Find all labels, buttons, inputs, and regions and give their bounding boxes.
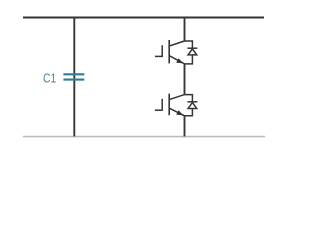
diode D2 triangle [188, 102, 197, 108]
transistor Q2 (lower IGBT with antiparallel diode) [155, 94, 198, 116]
diode D1 cathode bar [187, 47, 197, 49]
wire: IGBT branch mid segment (Q1 emitter to Q2 collector) [184, 64, 186, 96]
wire: IGBT branch upper segment (rail to Q1 collector) [184, 18, 186, 42]
collector diagonal [169, 95, 184, 100]
collector diagonal [169, 41, 184, 46]
wire: capacitor branch vertical [73, 18, 75, 137]
diode top stub [185, 41, 193, 48]
body bar [168, 40, 170, 63]
diode D2 cathode bar [187, 101, 197, 103]
capacitor C1 plates [63, 74, 84, 79]
transistor Q1 (upper IGBT with antiparallel diode) [155, 40, 198, 64]
wire: bottom rail (light gray) [23, 136, 265, 138]
wire: top DC+ rail [23, 16, 264, 18]
body bar [168, 94, 170, 116]
gate lead [155, 109, 162, 111]
emitter diagonal [169, 56, 184, 64]
gate bar [161, 45, 163, 57]
diode D1 triangle [188, 49, 197, 55]
svg-text:C1: C1 [43, 72, 56, 86]
emitter arrowhead [176, 110, 183, 115]
wire: IGBT branch lower segment (Q2 emitter to bottom rail) [184, 116, 186, 137]
gate lead [155, 55, 162, 57]
diode top stub [185, 95, 193, 102]
emitter diagonal [169, 108, 184, 116]
diode anode leg + bottom stub [185, 55, 193, 64]
emitter arrowhead [176, 58, 183, 63]
diode anode leg + bottom stub [185, 109, 193, 116]
gate bar [161, 99, 163, 111]
